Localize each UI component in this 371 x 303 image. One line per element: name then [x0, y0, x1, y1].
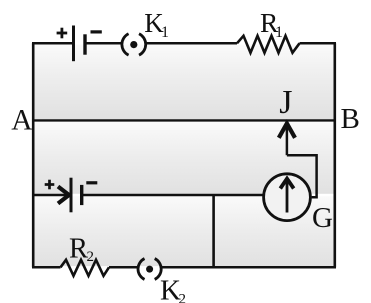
wire bottom-left corner to resistor R2 [32, 266, 61, 269]
wire left side [32, 43, 35, 267]
battery B1 positive plate [72, 26, 75, 62]
resistor R2 [61, 260, 110, 276]
wire resistor R1 to top-right corner [300, 42, 337, 45]
wire jockey to galvanometer [287, 155, 317, 197]
galvanometer G [264, 174, 311, 221]
svg-text:J: J [279, 84, 292, 121]
svg-text:A: A [11, 105, 33, 137]
wire key K2 to bottom-right corner [161, 266, 336, 269]
battery B1 negative plate [83, 34, 86, 54]
wire top-left to battery B1 [32, 42, 74, 45]
label - of B1 [91, 30, 102, 33]
label - of B2 [86, 181, 97, 184]
svg-text:2: 2 [87, 249, 95, 265]
wire resistor R2 to key K2 [109, 266, 139, 269]
svg-text:2: 2 [179, 292, 187, 303]
jockey arrow at J [286, 126, 289, 155]
wire riser middle to bottom [212, 195, 215, 267]
key K1 [122, 34, 146, 55]
svg-text:R: R [69, 233, 88, 264]
wire key K1 to resistor R1 [146, 42, 238, 45]
resistor R1 [237, 36, 300, 53]
battery B2 positive plate [70, 178, 73, 213]
key K2 [138, 259, 161, 280]
svg-text:1: 1 [275, 24, 283, 41]
svg-text:1: 1 [161, 24, 169, 41]
shaded region band 1 [35, 45, 334, 120]
wire right side [333, 43, 336, 267]
wire A to B (potentiometer wire) [32, 119, 336, 121]
label + of B1 [57, 28, 68, 39]
label + of B2 [45, 180, 55, 190]
wire battery B1 to key K1 [85, 42, 123, 45]
wire left to battery B2 [32, 194, 71, 197]
svg-text:G: G [312, 202, 333, 234]
current direction arrow into B2 [58, 187, 69, 204]
svg-text:B: B [341, 103, 360, 135]
shaded region band 2 [35, 122, 334, 194]
shaded region band 3 [35, 196, 334, 266]
wire battery B2 to galvanometer G [82, 194, 263, 197]
battery B2 negative plate [80, 185, 83, 205]
